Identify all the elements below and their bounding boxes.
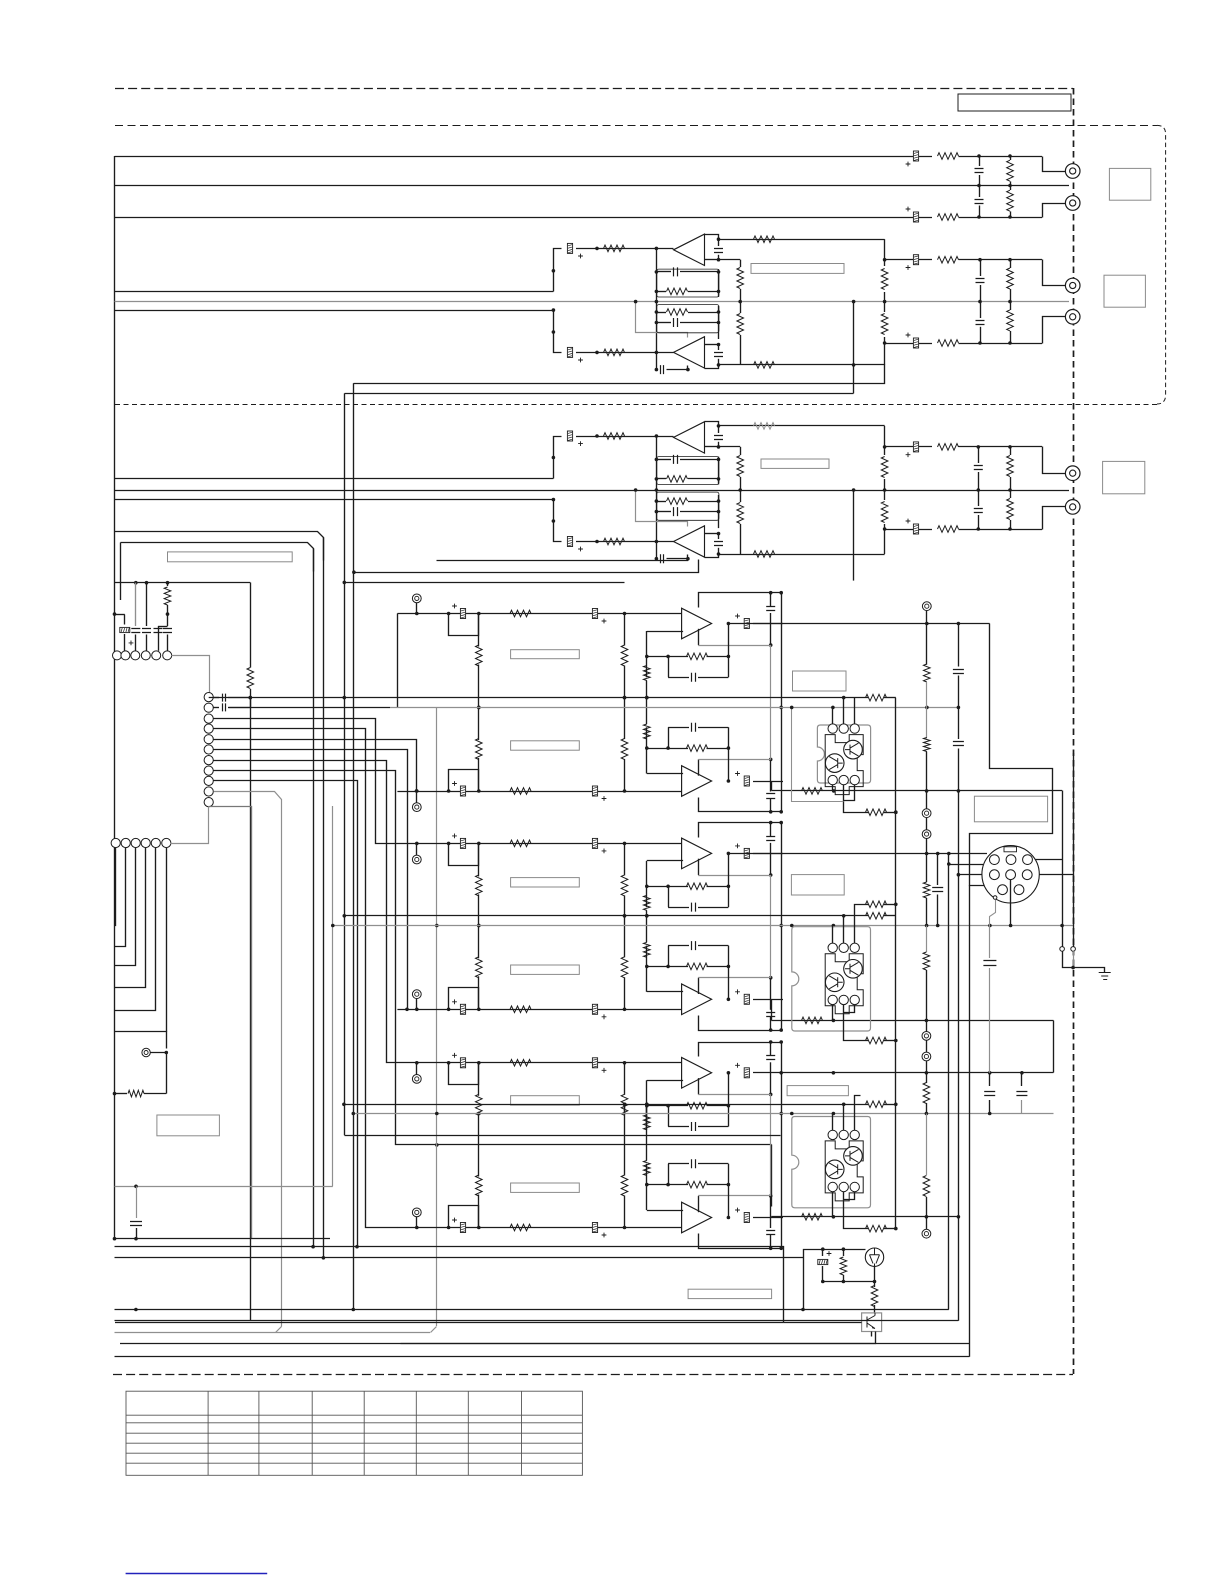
- wire output drop: [771, 1217, 773, 1218]
- resistor bus K2: [866, 913, 887, 920]
- divider vertical for group3: [884, 426, 886, 447]
- node: [717, 363, 721, 367]
- node: [623, 696, 627, 700]
- node: [977, 445, 981, 449]
- node: [447, 1226, 451, 1230]
- wire grey bus mid2: [115, 301, 1070, 303]
- node: [249, 696, 253, 700]
- node: [977, 488, 981, 492]
- node: [645, 914, 649, 918]
- test point right pair2 d: [926, 1040, 928, 1052]
- node: [655, 270, 659, 274]
- resistor right col pair3 lower: [926, 1114, 928, 1176]
- wire jack4 stub: [1043, 317, 1066, 344]
- wire pkg1 pin6 down: [844, 785, 855, 801]
- resistor input vertical: [478, 1063, 480, 1096]
- capacitor CE8 electrolytic: [567, 537, 582, 552]
- node: [717, 510, 721, 514]
- resistor bias vertical: [624, 977, 626, 1009]
- wire block A1 input loop: [554, 249, 562, 292]
- node: [666, 746, 670, 750]
- node: [447, 789, 451, 793]
- node: [894, 903, 898, 907]
- dashed border outer bottom: [113, 1374, 1073, 1376]
- node: [477, 1112, 481, 1116]
- node: [655, 368, 659, 372]
- node: [134, 1308, 138, 1312]
- capacitor fb: [770, 1235, 772, 1249]
- wire grey under opamp: [698, 1196, 700, 1212]
- node: [790, 1112, 794, 1116]
- wire opto bottom: [871, 1332, 873, 1337]
- resistor R33: [167, 583, 169, 586]
- resistor R18: [740, 302, 742, 313]
- node: [165, 1051, 169, 1055]
- wire fb grey drop: [770, 707, 772, 759]
- node: [717, 424, 721, 428]
- wire left edge vertical: [114, 156, 116, 1239]
- wire pkg2 pin1 up: [832, 926, 834, 944]
- node: [894, 1103, 898, 1107]
- node: [645, 1183, 649, 1187]
- node: [978, 341, 982, 345]
- wire ch5 to pkg3 line: [345, 1135, 781, 1137]
- resistor drive vertical: [644, 1161, 651, 1176]
- node: [925, 622, 929, 626]
- label box speaker right: [974, 796, 1047, 822]
- node: [769, 810, 773, 814]
- wire A right vertical: [853, 302, 855, 394]
- wire: [728, 624, 730, 678]
- op-amp power driver: [682, 1202, 712, 1233]
- dashed border outer top: [115, 88, 1073, 90]
- node: [821, 1247, 825, 1251]
- node: [883, 258, 887, 262]
- dashed inner box top: [115, 125, 1157, 127]
- dashed border outer right: [1073, 88, 1075, 1374]
- resistor R4: [1010, 186, 1012, 191]
- wire nested box outer: [115, 532, 324, 561]
- wire bus bot1: [115, 217, 933, 219]
- wire fb top rail: [699, 798, 782, 812]
- wire electro loop: [449, 614, 479, 636]
- node: [957, 873, 961, 877]
- node: [435, 1143, 439, 1147]
- resistor right pair1 upper: [926, 624, 928, 665]
- wire bottom long5: [115, 1257, 804, 1259]
- node: [769, 1028, 773, 1032]
- label box left: [157, 1115, 220, 1136]
- node: [322, 1256, 326, 1260]
- label box channel 5: [511, 1096, 580, 1105]
- capacitor C23 grey lead: [136, 1186, 138, 1218]
- wire ch1 gnd stub: [397, 614, 399, 708]
- op-amp power driver: [682, 838, 712, 869]
- wire B right vertical: [853, 490, 855, 581]
- node: [477, 789, 481, 793]
- label box pair2: [791, 875, 844, 895]
- node: [1008, 154, 1012, 158]
- capacitor fb2: [668, 886, 670, 907]
- wire bundle v4: [313, 549, 315, 1247]
- node: [883, 341, 887, 345]
- node: [769, 591, 773, 595]
- channel 3: [397, 821, 783, 928]
- node: [977, 184, 981, 188]
- capacitor C14: [656, 558, 658, 560]
- node: [447, 1061, 451, 1065]
- transistor Q upper: [844, 1147, 863, 1166]
- node: [779, 591, 783, 595]
- node: [717, 552, 721, 556]
- capacitor right pair2: [937, 854, 939, 886]
- node: [655, 310, 659, 314]
- wire din left stub1: [949, 864, 983, 866]
- wire fb top rail: [699, 823, 782, 838]
- resistor bias vertical: [624, 1196, 626, 1228]
- wire opto line: [115, 1322, 783, 1324]
- wire B out lower: [437, 558, 688, 561]
- wire jack6 stub: [1043, 507, 1066, 530]
- node: [477, 1112, 481, 1116]
- wire bundle grey v3 bend: [276, 1327, 282, 1333]
- node: [769, 1040, 773, 1044]
- capacitor CE9 electrolytic: [906, 442, 919, 457]
- node: [655, 540, 659, 544]
- node: [477, 1008, 481, 1012]
- node: [832, 1215, 836, 1219]
- wire cn3 link: [171, 807, 209, 844]
- node: [769, 1194, 773, 1198]
- node: [936, 852, 940, 856]
- wire grey bus G3: [353, 1113, 1053, 1115]
- node: [655, 557, 659, 561]
- wire pkg1 left grey: [792, 708, 844, 802]
- node: [435, 1112, 439, 1116]
- wire grey bus G2: [333, 925, 1073, 927]
- node: [894, 1227, 898, 1231]
- resistor R5: [938, 256, 959, 263]
- node: [947, 852, 951, 856]
- node: [717, 237, 721, 241]
- wire grey left mid: [115, 1186, 333, 1188]
- resistor input series: [510, 1060, 531, 1067]
- test point TP7: [142, 1048, 150, 1056]
- wire electro loop: [449, 1063, 479, 1085]
- label box block B: [761, 459, 829, 468]
- capacitor electrolytic output: [735, 771, 749, 786]
- node: [415, 1008, 419, 1012]
- resistor fb: [647, 886, 688, 888]
- capacitor electrolytic output: [735, 1208, 749, 1223]
- wire fb A1 top: [705, 235, 719, 240]
- resistor R2: [938, 214, 959, 221]
- wire bus top3: [885, 446, 932, 448]
- node: [552, 330, 556, 334]
- wire bundle grey v6: [332, 806, 334, 1186]
- channel 5: [397, 1040, 783, 1131]
- resistor R10 feedback: [754, 236, 775, 243]
- wire pkg3 pin5 down: [844, 1192, 869, 1229]
- resistor input vertical: [478, 614, 480, 647]
- node: [779, 810, 783, 814]
- node: [645, 1103, 649, 1107]
- channel 2: [397, 696, 783, 814]
- node: [623, 696, 627, 700]
- capacitor C24: [163, 629, 172, 633]
- node: [311, 1245, 315, 1249]
- wire channel main: [397, 1227, 683, 1229]
- capacitor C9: [656, 369, 658, 371]
- node: [645, 696, 649, 700]
- node: [166, 612, 170, 616]
- wire fb A1 out: [719, 259, 741, 261]
- node: [623, 914, 627, 918]
- node: [595, 540, 599, 544]
- resistor pkg2 R top: [866, 901, 887, 908]
- wire CN1 feed: [115, 582, 251, 584]
- resistor fb: [647, 1105, 688, 1107]
- resistor R26: [884, 490, 886, 500]
- wire fb grey drop: [770, 926, 772, 978]
- node: [666, 965, 670, 969]
- node: [925, 789, 929, 793]
- transistor Q upper: [844, 740, 863, 759]
- resistor R14 feedback: [754, 362, 775, 369]
- node: [166, 581, 170, 585]
- node: [852, 300, 856, 304]
- wire nested box inner: [121, 543, 314, 572]
- node: [738, 300, 742, 304]
- capacitor C16: [978, 490, 980, 506]
- node: [645, 885, 649, 889]
- node: [883, 300, 887, 304]
- connector CN2 pin column: [204, 693, 213, 702]
- node: [1008, 527, 1012, 531]
- node output: [727, 1216, 731, 1220]
- node: [686, 557, 690, 561]
- capacitor C22 grey: [989, 926, 991, 959]
- capacitor electrolytic input: [452, 999, 466, 1014]
- capacitor fb: [770, 593, 772, 607]
- package outline grey: [817, 725, 870, 783]
- wire jack3 stub: [1043, 260, 1066, 286]
- capacitor electrolytic coupling: [592, 1223, 606, 1238]
- node: [883, 527, 887, 531]
- wire fb network vertical: [646, 631, 648, 677]
- wire din left stub2: [958, 874, 989, 876]
- resistor R16: [884, 302, 886, 312]
- wire A out lower2: [345, 393, 854, 395]
- wire grey under opamp: [698, 759, 700, 775]
- wire fb bus vertical pair1: [781, 593, 783, 812]
- label box channel 1: [511, 650, 580, 659]
- resistor R15: [884, 260, 886, 266]
- DIN pins: [990, 855, 1000, 865]
- feedback network box B1: [657, 457, 719, 485]
- node: [832, 1019, 836, 1023]
- wire bundle grey v3: [214, 792, 282, 1327]
- resistor pkg2 R bot: [866, 1037, 887, 1044]
- node: [1008, 300, 1012, 304]
- capacitor electrolytic output: [735, 844, 749, 859]
- node: [842, 1247, 846, 1251]
- wire fb top rail: [699, 593, 782, 608]
- node: [623, 789, 627, 793]
- DIN connector J7: [982, 846, 1039, 903]
- node: [779, 1028, 783, 1032]
- label box channel 6: [511, 1183, 580, 1192]
- node: [477, 612, 481, 616]
- wire bus bot3: [885, 529, 932, 531]
- wire A out lower: [354, 365, 885, 384]
- dashed inner box bottom: [115, 404, 1157, 406]
- wire pkg3 pin6 down: [844, 1192, 855, 1200]
- resistor R1: [938, 153, 959, 160]
- package outline grey: [792, 927, 871, 1031]
- node: [790, 924, 794, 928]
- block B output divider: [740, 447, 742, 455]
- node: [666, 655, 670, 659]
- node output: [727, 779, 731, 783]
- wire bundle v11 to ch2: [214, 740, 417, 791]
- opto coupler Q2: [862, 1313, 882, 1332]
- node: [415, 789, 419, 793]
- resistor bus K3: [866, 1101, 887, 1108]
- wire bus mid3 long: [115, 490, 1070, 492]
- node: [925, 1215, 929, 1219]
- node: [717, 499, 721, 503]
- node: [342, 1103, 346, 1107]
- capacitor electrolytic input: [452, 834, 466, 849]
- capacitor CE12 electrolytic: [822, 1249, 824, 1256]
- capacitor fb: [770, 1016, 772, 1030]
- package pins bottom: [828, 1182, 837, 1191]
- resistor drive vertical: [644, 895, 651, 910]
- wire bus K2: [344, 915, 868, 917]
- test point right ch1: [922, 602, 931, 611]
- node: [113, 612, 117, 616]
- wire channel main: [397, 843, 683, 845]
- wire: [884, 529, 886, 554]
- resistor input series: [510, 788, 531, 795]
- wire output drop: [771, 1000, 773, 1021]
- capacitor CE7 electrolytic: [567, 431, 582, 446]
- node: [769, 758, 773, 762]
- wire ch5 output line: [783, 1072, 868, 1074]
- wire fb network vertical: [646, 1080, 648, 1126]
- node: [842, 1103, 846, 1107]
- feedback network box B2: [657, 492, 719, 520]
- wire bottom left grey: [115, 1332, 431, 1334]
- node: [769, 1247, 773, 1251]
- capacitor fb2: [668, 727, 670, 748]
- solid box top-right: [958, 94, 1071, 111]
- node: [832, 1112, 836, 1116]
- node: [145, 581, 149, 585]
- resistor input series: [510, 840, 531, 847]
- resistor R35: [843, 1249, 845, 1256]
- capacitor electrolytic coupling: [592, 838, 606, 853]
- capacitor fb2: [668, 946, 670, 967]
- node: [717, 270, 721, 274]
- node: [936, 924, 940, 928]
- capacitor right pair1 lower: [958, 707, 960, 739]
- node: [977, 154, 981, 158]
- node: [686, 368, 690, 372]
- node: [645, 965, 649, 969]
- node: [957, 706, 961, 710]
- capacitor electrolytic coupling: [592, 786, 606, 801]
- capacitor CE11 electrolytic: [124, 615, 126, 625]
- op-amp power driver: [682, 984, 712, 1015]
- capacitor C10: [718, 426, 720, 433]
- wire B out lower2: [354, 560, 699, 573]
- transistor Q lower: [825, 1160, 844, 1179]
- resistor R11: [656, 291, 666, 293]
- wire bottom q feed: [804, 1250, 866, 1310]
- node: [352, 570, 356, 574]
- wire bundle v12 to ch4: [214, 750, 408, 1010]
- wire grey bus G1: [390, 707, 958, 709]
- transistor Q1: [865, 1248, 883, 1267]
- capacitor electrolytic input: [452, 781, 466, 796]
- wire din right stub2: [1033, 874, 1074, 876]
- wire grey under opamp: [698, 1078, 700, 1094]
- node: [352, 1308, 356, 1312]
- resistor R36: [871, 1286, 878, 1307]
- capacitor C2: [979, 186, 981, 198]
- op-amp U1A: [674, 234, 705, 265]
- node: [655, 290, 659, 294]
- resistor drive vertical: [644, 942, 651, 957]
- capacitor CE3 electrolytic: [906, 255, 919, 270]
- wire bus top2: [885, 259, 932, 261]
- node: [978, 300, 982, 304]
- wire bundle v9 to ch3: [214, 719, 398, 844]
- node: [717, 321, 721, 325]
- package inner outline: [825, 954, 863, 1014]
- wire pkg1 pin2 up: [843, 698, 845, 724]
- node: [655, 351, 659, 355]
- node: [1008, 445, 1012, 449]
- node: [717, 477, 721, 481]
- wire channel main: [397, 1009, 683, 1011]
- wire fb grey drop: [770, 875, 772, 926]
- wire fb network vertical: [646, 946, 648, 992]
- node: [595, 434, 599, 438]
- resistor fb: [647, 966, 688, 968]
- wire ch2 to DIN step: [1062, 791, 1064, 947]
- wire bus top1: [115, 156, 933, 158]
- capacitor C6: [656, 271, 671, 273]
- wire output: [753, 781, 783, 783]
- node: [1008, 258, 1012, 262]
- node: [769, 643, 773, 647]
- label box channel 3: [511, 878, 580, 887]
- node: [832, 1071, 836, 1075]
- node: [925, 1071, 929, 1075]
- connector CN3 pins: [111, 838, 120, 847]
- resistor fb: [647, 748, 688, 750]
- test point right pair2 a: [926, 791, 928, 809]
- capacitor CE2 electrolytic: [906, 207, 919, 222]
- op-amp power driver: [682, 766, 712, 797]
- wire electro loop: [449, 988, 479, 1010]
- node: [947, 862, 951, 866]
- resistor right col pair2 lower: [926, 926, 928, 953]
- node: [1060, 924, 1064, 928]
